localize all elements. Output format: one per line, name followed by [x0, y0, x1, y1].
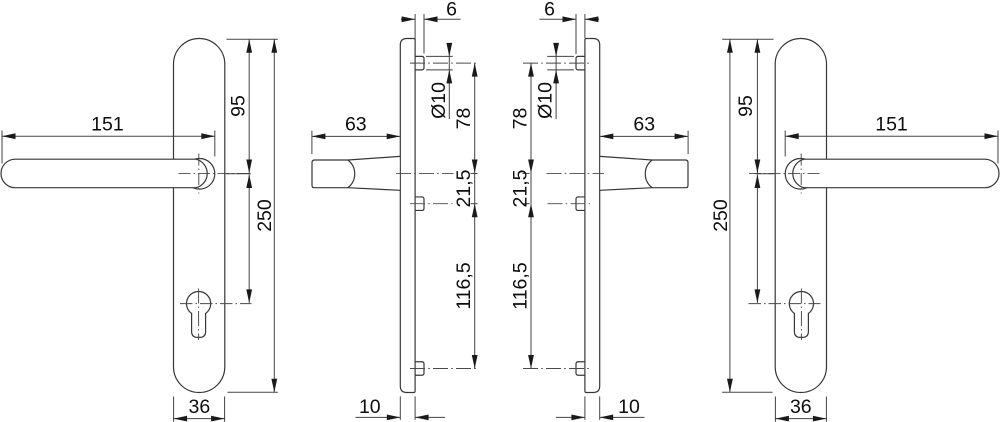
dimension 151 extension lines (right view) [785, 131, 998, 164]
dimension 151 extension lines (left view) [2, 131, 215, 164]
left profile middle boss centerline [410, 203, 453, 205]
svg-text:78: 78 [453, 108, 475, 130]
right neck vertical centerline [800, 154, 802, 194]
dimension line handle-to-cylinder (right view) [755, 174, 761, 302]
dimension 151 line with arrows (right view) [785, 133, 998, 139]
dimension 6 line with arrows (right profile) [540, 16, 600, 22]
right view bottom extension line [722, 391, 772, 393]
right lever handle bar [793, 159, 999, 188]
diameter 10 extension lines (left profile) [426, 56, 453, 70]
left neck vertical centerline [198, 154, 200, 194]
dimension 95 line with arrows (left view) [246, 39, 252, 173]
svg-text:21,5: 21,5 [510, 169, 532, 207]
dimension 6 extension lines (right profile) [576, 14, 585, 54]
left profile lever grip [312, 160, 355, 188]
right view top extension line [722, 38, 773, 40]
left cylinder horizontal centerline [180, 303, 252, 305]
right cylinder horizontal centerline [749, 303, 821, 305]
right profile lever neck outline [600, 156, 652, 190]
left handle front view backplate [174, 39, 225, 393]
dimension 10 extension lines (left profile) [400, 396, 415, 419]
left profile handle center extension tick [471, 172, 478, 174]
svg-text:151: 151 [875, 114, 908, 136]
left profile handle centerline [396, 172, 454, 174]
svg-text:78: 78 [510, 108, 532, 130]
dimension 36 line with arrows (right view) [775, 416, 826, 422]
left profile middle boss extension tick [471, 203, 478, 205]
svg-text:63: 63 [633, 114, 655, 136]
right profile handle center extension tick [523, 172, 530, 174]
dimension 10 line with arrows (right profile) [556, 415, 645, 421]
svg-text:Ø10: Ø10 [535, 82, 557, 119]
left handle horizontal centerline [179, 172, 252, 174]
dimension 10 extension lines (right profile) [585, 396, 600, 419]
svg-text:36: 36 [189, 396, 211, 418]
right view handle center extension tick [756, 173, 775, 175]
dimension 36 line with arrows (left view) [174, 416, 225, 422]
dimension 63 extension line (right profile) [687, 131, 689, 154]
diameter 10 dimension line with arrows (left profile) [446, 43, 452, 119]
left cylinder vertical centerline [198, 289, 200, 341]
right profile lever grip [645, 160, 688, 188]
svg-text:Ø10: Ø10 [428, 82, 450, 119]
right profile middle screw boss [576, 197, 585, 211]
svg-text:63: 63 [345, 114, 367, 136]
right profile middle boss centerline [548, 203, 591, 205]
dimension 63 line with arrows (left profile) [312, 134, 400, 140]
svg-text:250: 250 [254, 199, 276, 232]
right profile handle centerline [547, 172, 605, 174]
dimension 250 line with arrows (right view) [727, 39, 733, 392]
dimension 151 line with arrows (left view) [2, 133, 215, 139]
svg-text:95: 95 [228, 95, 250, 117]
svg-text:151: 151 [91, 114, 124, 136]
svg-text:6: 6 [446, 0, 457, 20]
left profile lever neck fill [348, 156, 400, 190]
dimension 36 extension lines (right view) [775, 397, 826, 422]
svg-text:10: 10 [359, 396, 381, 418]
dimension 63 line with arrows (right profile) [600, 134, 688, 140]
svg-text:21,5: 21,5 [453, 169, 475, 207]
svg-text:6: 6 [544, 0, 555, 20]
left profile backplate [400, 39, 415, 393]
right cylinder hole [789, 292, 813, 338]
right profile bottom screw boss [576, 362, 585, 376]
dimension 6 extension lines (left profile) [415, 14, 424, 54]
left view handle center extension tick [226, 173, 251, 175]
dimension 36 extension lines (left view) [174, 397, 225, 422]
left view bottom extension line [228, 391, 278, 393]
dimension 6 line with arrows (left profile) [401, 16, 461, 22]
svg-text:36: 36 [790, 396, 812, 418]
left profile top boss centerline [410, 62, 477, 64]
svg-text:250: 250 [710, 199, 732, 232]
right lever neck circle [785, 159, 816, 190]
left lever handle bar [1, 159, 207, 188]
chained dimension line 78/21,5/116,5 (right profile) [528, 63, 534, 368]
svg-text:95: 95 [735, 95, 757, 117]
svg-text:116,5: 116,5 [510, 262, 532, 310]
dimension 10 line with arrows (left profile) [356, 415, 446, 421]
right profile backplate [585, 39, 600, 393]
left view top extension line [227, 38, 278, 40]
diameter 10 dimension line with arrows (right profile) [553, 43, 559, 119]
chained dimension line 78/21,5/116,5 (left profile) [472, 63, 478, 368]
left lever neck circle [184, 159, 215, 190]
right profile lever neck fill [600, 156, 652, 190]
left profile bottom screw boss [415, 362, 424, 376]
right profile bottom boss centerline [523, 368, 590, 370]
dimension 95 line with arrows (right view) [755, 39, 761, 173]
left cylinder hole [187, 292, 211, 338]
right profile middle boss extension tick [523, 203, 530, 205]
dimension line handle-to-cylinder (left view) [246, 174, 252, 302]
svg-text:116,5: 116,5 [453, 262, 475, 310]
right profile top screw boss [576, 56, 585, 70]
svg-text:10: 10 [618, 396, 640, 418]
right cylinder vertical centerline [800, 289, 802, 341]
left profile top screw boss [415, 56, 424, 70]
diameter 10 extension lines (right profile) [547, 56, 574, 70]
left profile lever neck outline [348, 156, 400, 190]
right handle front view backplate [775, 39, 826, 393]
right handle horizontal centerline [749, 172, 822, 174]
dimension 63 extension line (left profile) [311, 131, 313, 154]
dimension 250 line with arrows (left view) [271, 39, 277, 392]
right profile top boss centerline [523, 62, 590, 64]
left profile bottom boss centerline [410, 368, 477, 370]
left profile middle screw boss [415, 197, 424, 211]
